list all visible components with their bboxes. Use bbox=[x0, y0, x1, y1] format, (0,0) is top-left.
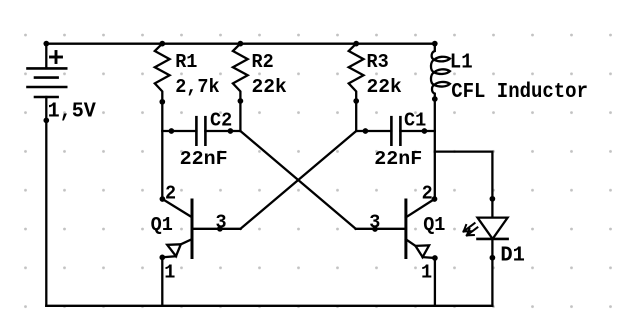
svg-text:R1: R1 bbox=[175, 51, 197, 73]
resistor R1 bbox=[155, 41, 170, 105]
svg-text:1,5V: 1,5V bbox=[48, 99, 96, 123]
wire: battery negative to ground rail bbox=[45, 120, 47, 305]
wire: top supply rail bbox=[46, 43, 435, 45]
svg-text:22nF: 22nF bbox=[180, 148, 228, 170]
battery B1 bbox=[28, 41, 67, 124]
transistor Q1 (right) bbox=[356, 196, 438, 261]
svg-text:CFL Inductor: CFL Inductor bbox=[451, 80, 588, 104]
wire: R3 bottom to C1 left node bbox=[355, 101, 357, 131]
svg-text:R3: R3 bbox=[367, 51, 389, 73]
svg-text:2: 2 bbox=[422, 182, 433, 204]
wire: cross coupling C2 right to Q1 right base bbox=[240, 131, 355, 229]
wire: right emitter to ground rail bbox=[434, 258, 436, 306]
svg-text:L1: L1 bbox=[450, 51, 473, 75]
wire: bottom ground rail bbox=[46, 305, 492, 307]
svg-text:22k: 22k bbox=[367, 76, 403, 98]
svg-text:Q1: Q1 bbox=[423, 214, 445, 236]
svg-text:C1: C1 bbox=[404, 109, 426, 131]
capacitor C2 bbox=[162, 117, 240, 145]
resistor R3 bbox=[349, 41, 364, 104]
svg-text:2,7k: 2,7k bbox=[175, 76, 220, 98]
capacitor C1 bbox=[356, 117, 435, 145]
wire: L1 bottom down to Q1 right collector node bbox=[434, 99, 436, 199]
inductor L1 bbox=[431, 41, 450, 102]
svg-text:2: 2 bbox=[165, 182, 176, 204]
svg-text:C2: C2 bbox=[210, 109, 232, 131]
transistor Q1 (left) bbox=[159, 196, 240, 260]
svg-text:3: 3 bbox=[369, 212, 380, 234]
svg-text:3: 3 bbox=[216, 212, 227, 234]
wire: branch from L1 node to LED anode bbox=[435, 152, 493, 218]
wire: R1 bottom to Q1 left collector node bbox=[161, 102, 163, 199]
svg-text:1: 1 bbox=[421, 261, 432, 283]
wire: left emitter to ground rail bbox=[161, 257, 163, 305]
svg-text:R2: R2 bbox=[252, 51, 274, 73]
svg-text:1: 1 bbox=[164, 261, 175, 283]
svg-text:22nF: 22nF bbox=[374, 148, 422, 170]
svg-text:D1: D1 bbox=[500, 244, 525, 268]
led D1 bbox=[464, 196, 508, 306]
svg-text:Q1: Q1 bbox=[151, 214, 173, 236]
wire: cross coupling C1 left to Q1 left base bbox=[241, 131, 357, 229]
wire: R2 bottom to C2 right node bbox=[239, 101, 241, 131]
resistor R2 bbox=[233, 41, 248, 104]
svg-text:22k: 22k bbox=[252, 76, 288, 98]
